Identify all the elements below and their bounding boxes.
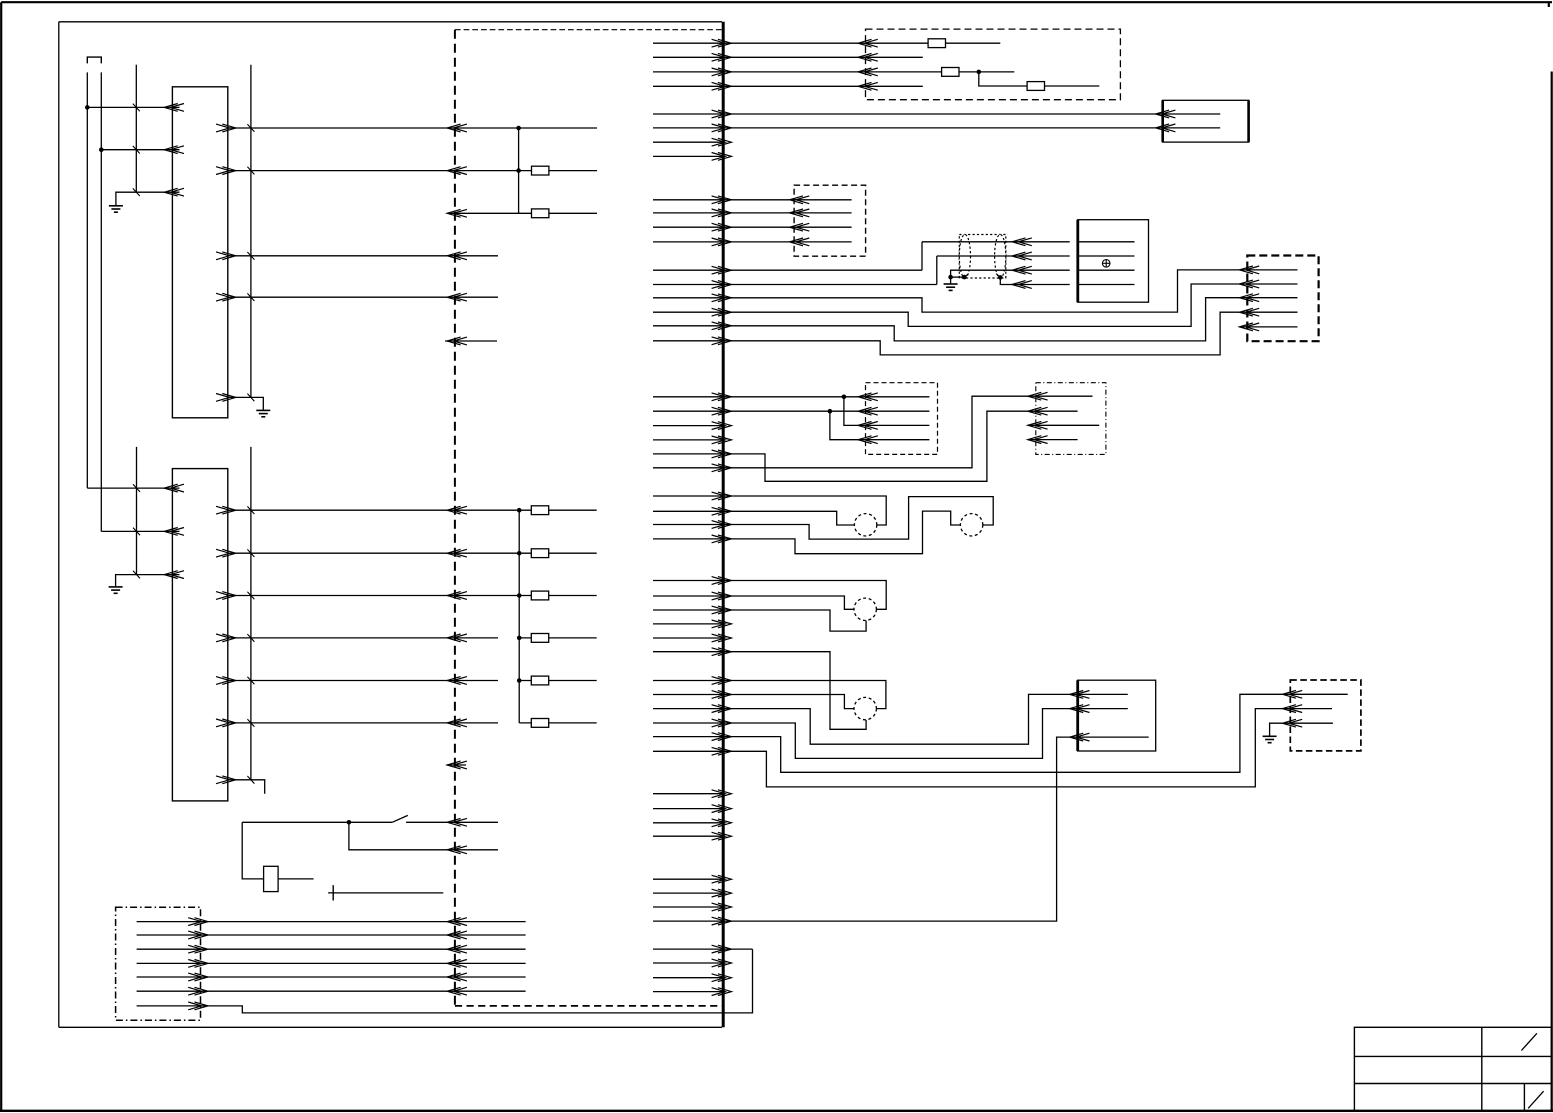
X5 pin4 arrow and wire	[1239, 308, 1297, 316]
wire: sense line F	[250, 447, 252, 780]
ECU pin arrow	[447, 960, 467, 968]
pin arrow out2	[216, 167, 236, 175]
X5 pin1 arrow and wire	[1239, 266, 1297, 274]
ECU pin stub	[653, 790, 731, 798]
X5 pin2 arrow and wire	[1239, 280, 1297, 288]
wire: K2 out5 to ECU pin	[228, 680, 498, 682]
ECU pin stub	[653, 634, 731, 642]
ECU pin stub	[653, 422, 731, 430]
pin arrow out4	[216, 293, 236, 301]
splice tick	[247, 394, 254, 402]
connector X7 (dash-dot box)	[1036, 383, 1106, 455]
lamp H2	[960, 514, 982, 536]
pin arrow X2-3	[188, 945, 208, 953]
fuse F10	[532, 166, 549, 175]
junction on fuse bus 1	[516, 168, 521, 173]
pin arrow X2-4	[188, 960, 208, 968]
wire: X2 pin6 to ECU	[137, 990, 526, 992]
X5 pin3 arrow and wire	[1239, 294, 1297, 302]
ECU pin, wire to X5-2	[653, 284, 1239, 326]
pin arrow out1	[216, 124, 236, 132]
X4 pin2 arrow and wire	[790, 209, 852, 217]
splice tick	[247, 634, 254, 642]
ECU pin arrow	[447, 818, 467, 826]
module U1 (radio unit)	[1078, 220, 1149, 303]
title block slash 1	[1521, 1033, 1537, 1050]
ECU pin, wire to lamp H3 bottom	[653, 606, 866, 631]
splice tick	[133, 104, 140, 112]
wire: screen bond	[951, 276, 965, 278]
fuse F7	[928, 39, 945, 48]
X7 pin4 arrow and wire	[1028, 436, 1078, 444]
junction	[517, 508, 522, 513]
junction	[948, 275, 953, 280]
wire: bus B tap to connector K1 pin2	[101, 149, 179, 151]
pin arrow K2 pin2	[164, 528, 184, 536]
ECU pin to X3-4	[653, 82, 858, 90]
pin arrow K1 pin2	[164, 146, 184, 154]
wire: K2 out4 to ECU pin	[228, 637, 498, 639]
ECU pin stub (no connection)	[445, 337, 497, 345]
wire: ECU pin to fuse F11	[449, 212, 597, 214]
wire: X1 left leg to bus A	[86, 72, 88, 488]
pin arrow K1 pin1	[164, 104, 184, 112]
junction	[977, 70, 982, 75]
wire: battery feed line	[328, 892, 443, 894]
junction	[517, 636, 522, 641]
ECU pin stub	[653, 959, 731, 967]
pin arrow X2-1	[188, 918, 208, 926]
ECU pin arrow	[447, 293, 467, 301]
pin arrow K2 out4	[216, 634, 236, 642]
ECU pin arrow	[447, 918, 467, 926]
fuse F8	[942, 68, 959, 77]
wire: fuse bus vertical	[518, 510, 520, 723]
ECU pin arrow	[447, 167, 467, 175]
ECU pin arrow	[447, 973, 467, 981]
lamp H3	[854, 598, 876, 620]
wire: bus A elbow to connector K2 pin1	[87, 487, 179, 489]
wire: branch to X6-3	[844, 397, 858, 426]
ECU pin, wire to shielded lead 2	[653, 281, 937, 289]
ECU dashed boundary (control unit outline)	[455, 30, 722, 1006]
wire: K2 out2 to ECU and fuse F2	[228, 552, 597, 554]
wire: K1 out5 to ground	[228, 397, 263, 410]
pin arrow K2 pin3	[164, 571, 184, 579]
ECU pin arrow	[447, 634, 467, 642]
splice tick	[133, 188, 140, 196]
ECU pin to X3-2	[653, 53, 858, 61]
splice tick	[133, 528, 140, 536]
wire: K2 out1 to ECU and fuse F1	[228, 509, 597, 511]
junction on bus A	[85, 105, 90, 110]
lamp H4	[854, 697, 876, 719]
wire: K2 out6 to ECU pin	[228, 722, 498, 724]
connector K1 (upper left block)	[172, 87, 227, 418]
ECU pin, wire to lamp H4 left	[653, 691, 854, 709]
junction	[517, 593, 522, 598]
title block	[1354, 1027, 1551, 1111]
ECU pin arrow	[447, 846, 467, 854]
pin arrow K2 out7	[216, 776, 236, 784]
pin arrow X2-6	[188, 987, 208, 995]
X7 pin3 arrow and wire	[1028, 421, 1099, 429]
ECU pin arrow	[447, 209, 467, 217]
junction at switch node	[347, 820, 352, 825]
protective earth symbol	[1102, 259, 1110, 267]
wire: fuse F5 branch	[519, 680, 597, 682]
ECU pin arrow	[447, 506, 467, 514]
module U2 (top right box)	[1163, 100, 1249, 142]
X4 pin4 arrow and wire	[790, 238, 852, 246]
pin arrow K1 pin3	[164, 188, 184, 196]
wire: K2 out3 to ECU and fuse F3	[228, 595, 597, 597]
connector X3 (top dashed box)	[866, 29, 1121, 100]
lamp H1	[854, 514, 876, 536]
title block slash 2	[1528, 1091, 1543, 1108]
wire: bus B elbow to connector K2 pin2	[101, 530, 179, 532]
ECU pin, wire to lamp H4 bottom	[653, 648, 866, 730]
shield ellipse right	[995, 235, 1006, 278]
wire: shielded lead 1	[922, 238, 1070, 246]
splice tick	[133, 571, 140, 579]
wire: X2 pin5 to ECU	[137, 976, 526, 978]
shield ellipse left	[959, 235, 970, 278]
wire: ground lead to connector K2 pin3	[116, 575, 180, 587]
ECU pin, wire to lamp H2 left	[653, 511, 960, 554]
wire: shielded lead 3 (screen ground)	[951, 266, 1070, 277]
pin arrow X2-2	[188, 931, 208, 939]
U3 pin3 arrow and wire	[1070, 733, 1149, 741]
ECU pin, wire to X6-1	[653, 393, 858, 401]
connector X6 (dashed box)	[866, 383, 938, 455]
ECU pin, wire to X8-2	[653, 709, 1282, 787]
ECU pin to X3-3	[653, 68, 858, 76]
splice tick	[247, 293, 254, 301]
X6 pin2 arrow and wire	[858, 407, 929, 415]
X8 pin1 arrow and wire	[1282, 690, 1347, 698]
ECU pin to X4-3	[653, 223, 790, 231]
ECU pin, wire to X7-2	[653, 411, 1028, 481]
ECU pin, wire to lamp H4 right	[653, 677, 886, 709]
junction on bus B	[99, 147, 104, 152]
ECU pin stub	[653, 436, 731, 444]
ECU pin to U2-1	[653, 110, 1156, 118]
X3 pin2 arrow and wire	[858, 53, 923, 61]
inner drawing frame	[59, 22, 722, 1028]
ECU pin, wire to lamp H3 right	[653, 577, 886, 610]
ECU pin stub	[653, 832, 731, 840]
ECU pin arrow	[447, 124, 467, 132]
wire: shielded lead 2	[937, 252, 1070, 260]
wire: X2 pin3 to ECU	[137, 948, 526, 950]
connector X8 (dashed box)	[1290, 680, 1361, 751]
connector K2 (lower left block)	[172, 469, 227, 801]
ECU pin, wire to rear bracket	[653, 945, 753, 953]
junction	[962, 275, 967, 280]
ECU pin arrow	[447, 987, 467, 995]
ground G3	[109, 587, 123, 593]
ECU pin stub	[653, 988, 731, 996]
U3 pin1 arrow and wire	[1070, 691, 1128, 699]
ECU pin, wire to X6-2	[653, 407, 858, 415]
wire: X8 pin3 to ground	[1270, 723, 1283, 736]
fuse F1	[531, 506, 548, 515]
wire: ground lead to connector K1 pin3	[116, 192, 180, 206]
connector X2 (bottom left, dash-dot)	[116, 907, 201, 1020]
wire: bus A tap to connector K1 pin1	[87, 106, 179, 108]
battery positive terminal B+	[332, 885, 334, 900]
ECU pin stub	[653, 805, 731, 813]
fuse F5	[531, 676, 548, 685]
wire: X2 pin2 to ECU	[137, 934, 526, 936]
wire: K1 out2 to ECU and fuse F10	[228, 170, 597, 172]
pin arrow out5	[216, 394, 236, 402]
ECU pin, wire to X5-1	[653, 270, 1239, 312]
wire: K1 out4 to ECU pin	[228, 296, 498, 298]
pin arrow K2 out3	[216, 592, 236, 600]
ECU pin arrow	[447, 549, 467, 557]
ground G2	[256, 410, 270, 416]
ground G4	[944, 284, 958, 290]
X3 pin3 arrow and wire	[858, 68, 1014, 76]
ECU pin arrow	[447, 252, 467, 260]
junction	[517, 678, 522, 683]
X3 pin4 arrow and wire	[858, 82, 923, 90]
wire: fuse F6 branch	[519, 722, 597, 724]
U1 internal lead 2	[1078, 255, 1135, 257]
ECU pin arrow	[447, 945, 467, 953]
ECU pin to U2-2	[653, 124, 1156, 132]
splice tick	[247, 677, 254, 685]
junction	[828, 409, 833, 414]
X4 pin3 arrow and wire	[790, 223, 852, 231]
pin arrow K2 out6	[216, 719, 236, 727]
X4 pin1 arrow and wire	[790, 196, 852, 204]
ECU pin, wire to shielded lead 1	[653, 266, 922, 274]
splice tick	[247, 592, 254, 600]
pin arrow X2-7	[188, 1002, 208, 1010]
fuse F6	[531, 719, 548, 728]
wire: K1 out3 to ECU pin	[228, 255, 498, 257]
wire: K1 out1 to ECU and fuse feed	[228, 127, 597, 129]
ECU pin arrow	[447, 592, 467, 600]
splice tick	[247, 167, 254, 175]
wire: X2 pin1 to ECU	[137, 921, 526, 923]
connector X5 (far right dashed box)	[1247, 256, 1318, 342]
ECU pin to X4-2	[653, 209, 790, 217]
ECU pin, wire to U3-2	[653, 709, 1070, 759]
ECU pin arrow (unused)	[447, 761, 467, 769]
splice tick	[247, 124, 254, 132]
ECU pin to X3-1	[653, 39, 858, 47]
resistor R1	[264, 866, 279, 891]
U3 pin2 arrow and wire	[1070, 705, 1128, 713]
screen bond slash	[996, 274, 1000, 278]
wire: sense line E	[136, 447, 138, 575]
ECU pin arrow	[447, 677, 467, 685]
X8 pin2 arrow and wire	[1282, 705, 1332, 713]
ECU pin, wire to lamp H1 right	[653, 492, 886, 525]
ECU pin arrow	[447, 719, 467, 727]
ECU pin, wire to lamp H3 left	[653, 592, 854, 609]
ECU pin, wire to X8-1	[653, 694, 1282, 772]
wire: up to shield lead 1	[921, 242, 923, 270]
wire: K2 out7 stub	[228, 780, 265, 794]
ECU pin, wire to U3-1	[653, 694, 1070, 744]
pin arrow K2 out2	[216, 549, 236, 557]
pin arrow X2-5	[188, 973, 208, 981]
pin arrow out3	[216, 252, 236, 260]
fuse F11	[532, 209, 549, 218]
wire: branch down	[979, 72, 1100, 86]
wire: fuse bus 1 vertical	[518, 128, 520, 213]
X7 pin1 arrow and wire	[1028, 392, 1093, 400]
X6 pin4 arrow and wire	[858, 436, 929, 444]
U1 internal lead 3	[1078, 269, 1135, 271]
screen bond slash	[964, 274, 968, 278]
wire: X2 pin4 to ECU	[137, 962, 526, 964]
wire: screen stub to lead 4	[1000, 277, 1069, 288]
U2 pin2 arrow and wire	[1156, 124, 1221, 132]
splice tick	[247, 506, 254, 514]
connector X1 housing (battery feed)	[87, 57, 101, 63]
splice tick	[133, 484, 140, 492]
wire: switch feed	[242, 821, 392, 823]
splice tick	[247, 549, 254, 557]
ECU pin, wire to X5-4	[653, 312, 1239, 355]
fuse F3	[531, 591, 548, 600]
ground G5	[1263, 736, 1277, 742]
ECU pin stub	[653, 889, 731, 897]
splice tick	[247, 719, 254, 727]
ground G1	[109, 206, 123, 212]
wire: switch fixed contact to ECU	[406, 821, 498, 823]
ECU pin stub	[653, 903, 731, 911]
ECU pin stub	[653, 153, 731, 161]
ECU pin, wire to X7-1	[653, 396, 1028, 472]
X6 pin1 arrow and wire	[858, 393, 929, 401]
ECU pin stub	[653, 974, 731, 982]
wire: resistor output	[278, 878, 314, 880]
ECU pin stub	[653, 620, 731, 628]
wire: X2 pin7 to ECU rear bracket	[137, 949, 753, 1013]
ECU pin stub	[653, 875, 731, 883]
ECU pin, wire to lamp H1 left	[653, 507, 854, 525]
ECU pin to X4-4	[653, 238, 790, 246]
wire: X1 right leg to bus B	[100, 72, 102, 531]
pin arrow K2 pin1	[164, 484, 184, 492]
ECU pin, wire to U3-3	[653, 737, 1070, 925]
ECU pin, wire to X5-3	[653, 298, 1239, 341]
wire: sense line D	[250, 65, 252, 398]
fuse F4	[531, 634, 548, 643]
U2 pin1 arrow and wire	[1156, 110, 1221, 118]
U1 internal lead 1	[1078, 241, 1135, 243]
splice tick	[247, 776, 254, 784]
ECU pin stub	[653, 138, 731, 146]
ECU pin stub	[653, 819, 731, 827]
X5 pin5 arrow and wire	[1239, 323, 1297, 331]
junction	[998, 275, 1003, 280]
shield screen (dotted)	[959, 235, 1006, 279]
splice tick	[247, 252, 254, 260]
ECU pin to X4-1	[653, 196, 790, 204]
pin arrow K2 out1	[216, 506, 236, 514]
junction	[517, 551, 522, 556]
pin arrow K2 out5	[216, 677, 236, 685]
switch SW1 blade	[392, 815, 408, 822]
wire: sense line C	[135, 65, 137, 193]
junction	[842, 395, 847, 400]
wire: fuse F4 branch	[519, 637, 597, 639]
U1 internal lead 4	[1078, 284, 1135, 286]
ECU pin arrow	[447, 931, 467, 939]
X7 pin2 arrow and wire	[1028, 407, 1078, 415]
fuse F9	[1027, 82, 1044, 91]
fuse F2	[531, 549, 548, 558]
wire: up to shield lead 2	[936, 256, 938, 285]
connector X4 (dashed box)	[794, 185, 866, 256]
relay box U3	[1078, 680, 1156, 751]
wire: branch to X6-4	[830, 411, 858, 440]
junction on fuse bus 1	[516, 126, 521, 131]
X6 pin3 arrow and wire	[858, 422, 929, 430]
X8 pin3 arrow and wire	[1282, 719, 1333, 727]
X3 pin1 arrow and wire	[858, 39, 1000, 47]
ECU connector column (thick line)	[722, 22, 725, 1028]
splice tick	[133, 146, 140, 154]
wire: feed down to resistor	[242, 822, 263, 879]
ECU pin, wire to lamp H2 right	[653, 497, 993, 539]
wire: ground stub	[950, 277, 952, 284]
wire: switch node branch to ECU	[349, 822, 498, 850]
